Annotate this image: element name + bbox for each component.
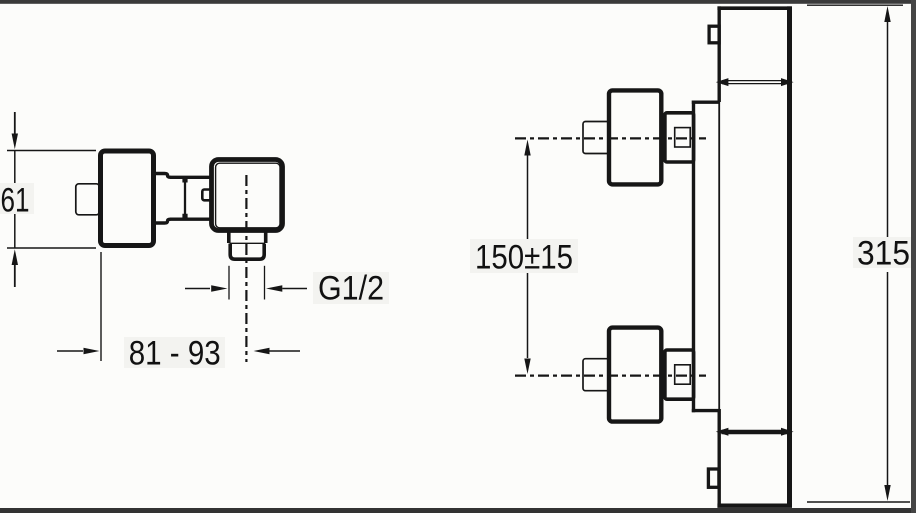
bottom seam right arrowhead [781, 428, 794, 436]
dimension 61 line lower segment [14, 212, 16, 249]
top handle knob [609, 90, 661, 184]
dimension 315 line upper segment [887, 21, 889, 238]
dimension 81-93 left shaft [57, 350, 83, 352]
bottom handle centerline [515, 375, 706, 377]
svg-text:61: 61 [1, 182, 30, 220]
outlet upper left edge [227, 232, 231, 243]
top seam line upper [722, 80, 788, 82]
mount plate left edge [692, 101, 695, 413]
dimension 150 top arrowhead [524, 140, 530, 156]
body bottom edge [717, 504, 792, 508]
body left edge upper thick [718, 6, 721, 102]
top handle end cap [583, 122, 610, 154]
G1/2 dim right arrowhead [266, 285, 282, 292]
mount plate top edge [692, 100, 719, 103]
wall supply stub [76, 184, 100, 215]
temperature button tab [202, 190, 212, 201]
dimension 61 line upper segment [14, 151, 16, 187]
outlet nut [230, 244, 264, 260]
frame bottom bar [0, 508, 916, 513]
bottom clip notch [708, 469, 719, 487]
bottom handle knob [609, 328, 661, 422]
svg-text:81 - 93: 81 - 93 [129, 335, 221, 373]
dimension 315 bottom extension line [807, 501, 910, 503]
dimension 150 line lower segment [527, 272, 529, 358]
svg-text:315: 315 [857, 235, 910, 273]
top handle nut [675, 128, 691, 147]
dimension 315 line lower segment [887, 272, 889, 486]
body right edge [787, 6, 792, 507]
dimension 81-93 right arrowhead [254, 348, 270, 354]
dimension 61 top arrow shaft [14, 112, 16, 134]
bottom handle nut [675, 365, 691, 384]
svg-text:150±15: 150±15 [475, 239, 573, 277]
dimension 61 bottom arrow shaft [14, 265, 16, 287]
G1/2 extension line right [264, 266, 266, 300]
top handle flange [665, 113, 694, 162]
dimension 61 bottom arrowhead [12, 249, 18, 265]
dimension 315 bottom arrowhead [884, 485, 890, 501]
top seam right arrowhead [781, 78, 794, 86]
escutcheon body [101, 151, 154, 246]
body left edge lower thick [718, 409, 721, 507]
neck section 1 top edge [156, 174, 171, 178]
dimension 150 line upper segment [527, 155, 529, 242]
top seam line lower [722, 83, 788, 85]
outlet joint thin line [230, 242, 266, 244]
G1/2 dim left shaft [185, 288, 210, 290]
handle knob inner line [216, 163, 280, 228]
mount plate bottom edge [692, 409, 719, 412]
bottom seam line [722, 430, 789, 435]
neck section 1 bottom edge [156, 219, 171, 223]
G1/2 dim right shaft [282, 288, 307, 290]
dimension 61 bottom extension line [7, 247, 96, 249]
bottom seam left arrowhead [716, 428, 729, 436]
dimension 81-93 right shaft [270, 350, 301, 352]
body left edge middle thin [718, 102, 720, 409]
dimension 61 top extension line [7, 150, 96, 152]
body top edge [717, 6, 791, 10]
neck section 2 top edge [170, 176, 212, 179]
top seam left arrowhead [716, 78, 729, 86]
top handle centerline [515, 137, 706, 139]
svg-text:G1/2: G1/2 [318, 270, 384, 308]
bottom handle end cap [583, 359, 610, 391]
G1/2 extension line left [228, 266, 230, 300]
outlet centerline (dash-dot) [245, 175, 247, 362]
neck joint line [184, 177, 186, 220]
neck section 2 bottom edge [170, 217, 212, 220]
dimension 150 bottom arrowhead [524, 359, 530, 375]
frame top bar [0, 0, 916, 4]
neck joint end blobs [182, 178, 187, 219]
outlet upper right edge [264, 232, 268, 243]
top clip notch [709, 26, 719, 43]
handle knob outer (side view) [212, 160, 283, 231]
G1/2 dim left arrowhead [211, 285, 227, 292]
text halo boxes (scan artifact) [0, 183, 911, 368]
bottom handle flange [665, 350, 694, 399]
dimension 61 top arrowhead [12, 134, 18, 150]
dimension 81-93 left arrowhead [84, 348, 100, 354]
frame right bar [911, 0, 916, 513]
dimension 315 top extension line [807, 4, 903, 6]
dimension 315 top arrowhead [884, 6, 890, 22]
dimension 81-93 extension line [100, 252, 102, 361]
